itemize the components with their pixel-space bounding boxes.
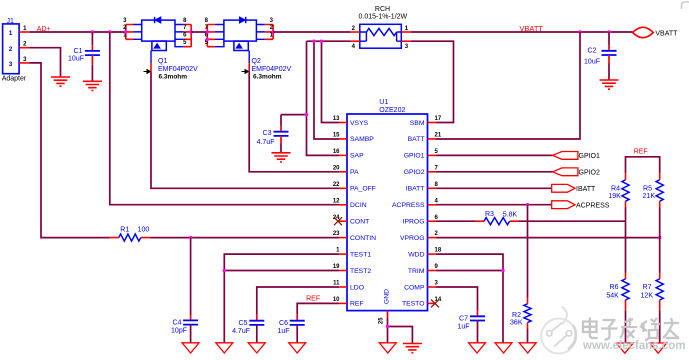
resistor R2: [524, 298, 531, 330]
svg-text:WDD: WDD: [408, 251, 424, 258]
svg-text:VBATT: VBATT: [519, 24, 543, 33]
svg-text:BATT: BATT: [408, 136, 425, 143]
wire SAMBP tap: [314, 41, 339, 139]
wire R2 lower: [527, 329, 529, 343]
svg-text:TRIM: TRIM: [408, 268, 425, 275]
svg-text:11: 11: [333, 281, 340, 287]
Q1 pin number 1: [123, 33, 127, 39]
svg-text:R2: R2: [512, 312, 521, 319]
Q2 value label 6.3mohm: [253, 74, 282, 81]
C3 value label 4.7uF: [257, 139, 275, 146]
node AD+ at C1 tap: [91, 30, 94, 33]
capacitor C2: [602, 51, 617, 55]
svg-text:25: 25: [379, 317, 385, 324]
resistor R4: [622, 173, 629, 207]
GPIO1 port name label: [579, 153, 601, 160]
svg-text:COMP: COMP: [404, 284, 425, 291]
svg-text:GPIO1: GPIO1: [579, 153, 601, 160]
svg-text:ACPRESS: ACPRESS: [576, 203, 610, 210]
C3 top pin stub: [280, 126, 282, 132]
RCH refdes label: [375, 6, 390, 13]
IBATT port name label: [576, 186, 596, 193]
capacitor C3: [274, 132, 289, 136]
svg-text:SAMBP: SAMBP: [350, 136, 374, 143]
capacitor C7: [470, 316, 485, 320]
RCH value label 0.015-1%-1/2W: [359, 14, 408, 21]
offpage port GPIO2: [553, 168, 578, 176]
R5 value label 21K: [643, 193, 656, 200]
C4 top pin stub: [190, 315, 192, 321]
wire J1 pin3 down and right to R1: [29, 63, 110, 238]
svg-text:TESTO: TESTO: [402, 301, 425, 308]
svg-text:21K: 21K: [643, 193, 656, 200]
net label VBATT: [519, 24, 543, 33]
RCH pin 4: [350, 41, 359, 50]
C6 refdes label: [279, 320, 288, 327]
ground earth below C3: [272, 153, 291, 162]
Q1 pin number 7: [183, 25, 187, 31]
Q2 pin number 5: [205, 40, 209, 46]
wire J1 pin2 to ground: [29, 48, 60, 77]
wire RCH pin4 sense line: [307, 40, 351, 42]
svg-text:CONT: CONT: [350, 219, 369, 226]
U1 part number label OZE202: [379, 107, 405, 114]
ground earth for U1 GND: [403, 344, 422, 353]
GPIO2 port name label: [579, 170, 601, 177]
R2 value label 36K: [510, 320, 523, 327]
svg-text:IPROG: IPROG: [403, 219, 425, 226]
svg-text:12: 12: [333, 198, 340, 204]
R1 value label 100: [138, 227, 150, 234]
svg-text:GPIO2: GPIO2: [579, 170, 601, 177]
svg-text:100: 100: [138, 227, 150, 234]
svg-text:EMF04P02V: EMF04P02V: [158, 66, 198, 73]
node Q2 left pins junction b: [206, 38, 209, 41]
C6 value label 1uF: [277, 328, 289, 335]
U1 pin 4 ACPRESS: [392, 198, 438, 209]
wire SBM to RCH pin3: [411, 41, 454, 122]
U1 pin 14 no-connect X: [431, 299, 439, 307]
Q2 mosfet element: [234, 41, 248, 50]
wire GPIO2: [436, 171, 553, 173]
svg-text:GPIO2: GPIO2: [404, 169, 425, 176]
svg-text:5.8K: 5.8K: [503, 211, 518, 218]
svg-text:C4: C4: [173, 320, 182, 327]
svg-text:C5: C5: [239, 320, 248, 327]
node GND junction: [386, 325, 389, 328]
U1 pin 1 TEST1: [336, 248, 371, 259]
Q1 pins 8,7,6,5 right stubs: [175, 25, 191, 47]
R5 refdes label: [643, 185, 652, 192]
resistor R5: [656, 173, 663, 207]
C4 refdes label: [173, 320, 182, 327]
svg-text:36K: 36K: [510, 320, 523, 327]
node AD+ at DCIN tap: [108, 30, 111, 33]
Q1 value label 6.3mohm: [159, 74, 188, 81]
svg-text:RCH: RCH: [375, 6, 390, 13]
U1 pin 21 BATT: [408, 133, 442, 144]
ground earth below C2: [600, 80, 619, 89]
wire LDO to C5: [257, 287, 339, 315]
svg-text:16: 16: [333, 149, 340, 155]
net label AD+: [37, 26, 51, 33]
svg-text:EMF04P02V: EMF04P02V: [252, 66, 292, 73]
R6 refdes label: [610, 284, 619, 291]
svg-text:4.7uF: 4.7uF: [232, 328, 250, 335]
svg-text:13: 13: [333, 116, 340, 122]
Q1 pin number 2: [123, 25, 127, 31]
svg-text:Q2: Q2: [252, 58, 261, 65]
U1 pin 25 number: [379, 317, 385, 324]
svg-text:SBM: SBM: [410, 120, 425, 127]
C3 refdes label: [263, 130, 272, 137]
svg-text:10uF: 10uF: [68, 56, 84, 63]
svg-text:4.7uF: 4.7uF: [257, 139, 275, 146]
wire R7 lower: [659, 310, 661, 343]
node Q1 left pins junction: [124, 30, 127, 33]
C7 refdes label: [459, 316, 468, 323]
svg-text:TEST1: TEST1: [350, 251, 371, 258]
wire REF pin to C6: [297, 303, 339, 314]
svg-text:C1: C1: [74, 48, 83, 55]
svg-text:J1: J1: [7, 18, 15, 25]
U1 pin 20 PA: [333, 165, 359, 176]
watermark chinese text zi: [601, 320, 618, 340]
svg-text:VBATT: VBATT: [655, 31, 678, 38]
C4 value label 10pF: [171, 328, 187, 335]
op-amp U1 body: [347, 114, 428, 311]
U1 pin 17 SBM: [410, 116, 442, 127]
wire PA_OFF to Q1 gate: [151, 73, 339, 189]
svg-text:R4: R4: [611, 185, 620, 192]
wire ACPRESS to R2: [527, 205, 529, 298]
watermark chinese text shao: [640, 318, 660, 340]
wire R4 node to R6: [625, 221, 627, 272]
C7 top pin stub: [477, 310, 479, 316]
C1 refdes label: [74, 48, 83, 55]
C2 top pin stub: [608, 45, 610, 51]
wire R6 lower: [625, 310, 627, 343]
R4 value label 19K: [608, 193, 621, 200]
wire TEST1 to ground: [224, 254, 339, 343]
U1 pin 18 WDD: [408, 248, 442, 259]
wire COMP to C7: [436, 287, 478, 310]
Q2 refdes label: [252, 58, 261, 65]
svg-text:15: 15: [333, 133, 340, 139]
R3 refdes label: [485, 211, 494, 218]
RCH pin 2: [350, 26, 359, 32]
U1 pin 7 GPIO2: [404, 165, 439, 176]
node Q2 right pins junction: [271, 30, 274, 33]
node C3 junction: [305, 113, 308, 116]
svg-text:www.elecfans.com: www.elecfans.com: [582, 340, 685, 352]
wire PA to Q2 gate: [249, 73, 339, 172]
svg-text:19K: 19K: [608, 193, 621, 200]
Q2 pins 8,7,6,5 left stubs: [207, 25, 224, 47]
wire R3 to R4 bottom: [518, 220, 625, 222]
svg-text:C2: C2: [588, 48, 597, 55]
R2 refdes label: [512, 312, 521, 319]
U1 pin 12 DCIN: [333, 198, 367, 209]
svg-text:TEST2: TEST2: [350, 268, 371, 275]
net label REF right: [634, 149, 648, 156]
R3 value label 5.8K: [503, 211, 518, 218]
Q1 pin number 5: [183, 40, 187, 46]
svg-text:SAP: SAP: [350, 153, 364, 160]
ground earth for J1 pin2: [51, 77, 70, 86]
svg-text:U1: U1: [379, 99, 388, 106]
wire C2 upper: [608, 32, 610, 45]
node VBATT at C2 tap: [607, 30, 610, 33]
wire Q1 to Q2: [191, 31, 207, 33]
node sense VSYS: [320, 40, 323, 43]
C1 value label 10uF: [68, 56, 84, 63]
ground triangle below R7: [650, 343, 667, 353]
svg-text:PA_OFF: PA_OFF: [350, 186, 376, 193]
U1 GND pin stub: [387, 311, 389, 318]
node sense SAMBP: [312, 40, 315, 43]
svg-text:54K: 54K: [606, 292, 619, 299]
Q2 body diode: [239, 17, 245, 23]
wire C6 lower: [296, 325, 298, 343]
wire CONTIN from R1: [150, 237, 339, 239]
svg-text:C3: C3: [263, 130, 272, 137]
svg-text:C7: C7: [459, 316, 468, 323]
svg-text:10: 10: [333, 297, 340, 303]
wire ACPRESS: [436, 204, 552, 206]
C5 refdes label: [239, 320, 248, 327]
Q2 pin number 8: [205, 18, 209, 24]
U1 pin 25 GND name: [384, 289, 391, 304]
Q1 pin number 3: [123, 18, 127, 24]
svg-text:10pF: 10pF: [171, 328, 187, 335]
Q1 refdes label: [158, 58, 167, 65]
J1 pin 2: [19, 42, 29, 48]
svg-text:1uF: 1uF: [457, 324, 469, 331]
svg-text:2: 2: [9, 46, 13, 53]
watermark chinese text you: [663, 318, 679, 338]
node CONTIN at C4 tap: [189, 236, 192, 239]
net label REF left: [306, 296, 320, 303]
Q1 gate lead: [150, 51, 152, 73]
Q1 mosfet element: [152, 41, 166, 50]
svg-text:C6: C6: [279, 320, 288, 327]
Q1 body diode: [155, 17, 161, 23]
svg-text:LDO: LDO: [350, 284, 364, 291]
ground triangle below R2: [519, 343, 536, 353]
Q1 gate pin arrow: [144, 70, 151, 74]
svg-text:R7: R7: [643, 284, 652, 291]
wire C7 lower: [477, 321, 479, 343]
wire Q2 to RCH pin2: [273, 31, 350, 33]
capacitor C5: [249, 321, 264, 325]
wire C3 lower: [280, 144, 282, 153]
C3 bottom pin stub: [280, 136, 282, 144]
svg-text:ACPRESS: ACPRESS: [392, 202, 425, 209]
svg-text:R1: R1: [120, 227, 129, 234]
ground triangle for TEST pins: [216, 343, 233, 353]
Q2 pin number 1: [270, 33, 274, 39]
svg-text:R5: R5: [643, 185, 652, 192]
wire RCH pin1 to VBATT port: [411, 31, 633, 33]
C2 value label 10uF: [584, 59, 600, 66]
U1 pin 15 SAMBP: [333, 133, 374, 144]
wire R5 node to R7: [659, 238, 661, 273]
transistor Q1 body: [142, 20, 175, 41]
capacitor C6: [290, 321, 305, 325]
resistor R3: [476, 218, 519, 225]
capacitor C4: [183, 320, 198, 324]
U1 pin 5 GPIO1: [404, 149, 439, 160]
svg-text:VPROG: VPROG: [400, 235, 425, 242]
svg-text:20: 20: [333, 165, 340, 171]
wire C4 upper: [190, 238, 192, 315]
watermark corner top right: [682, 2, 689, 9]
ground triangle below C4: [182, 343, 199, 353]
ground triangle below C6: [289, 343, 306, 353]
U1 pin 9 TRIM: [408, 264, 439, 275]
watermark chinese text dian: [583, 318, 598, 339]
R6 value label 54K: [606, 292, 619, 299]
svg-text:3: 3: [9, 61, 13, 68]
RCH pin 3: [401, 41, 411, 50]
J1 refdes label: [7, 18, 15, 25]
R4 refdes label: [611, 185, 620, 192]
Q1 pins 3,2,1 left stubs: [126, 25, 142, 40]
svg-text:OZE202: OZE202: [379, 107, 405, 114]
node VBATT at BATT tap: [578, 30, 581, 33]
ground triangle below C7: [469, 343, 486, 353]
Q2 pin number 6: [205, 33, 209, 39]
R1 refdes label: [120, 227, 129, 234]
offpage port GPIO1: [553, 152, 578, 160]
Q2 pin number 3: [270, 18, 274, 24]
ground triangle below C5: [248, 343, 265, 353]
wire R4 bottom to IPROG: [625, 208, 627, 222]
svg-text:Adapter: Adapter: [2, 76, 27, 83]
svg-text:REF: REF: [634, 149, 648, 156]
ground earth below C1: [83, 81, 102, 90]
offpage port IBATT: [552, 184, 575, 192]
svg-text:DCIN: DCIN: [350, 202, 367, 209]
U1 refdes label: [379, 99, 388, 106]
wire VPROG to R5 bottom: [436, 237, 660, 239]
Q2 pins 3,2,1 right stubs: [256, 25, 273, 40]
capacitor C1: [85, 51, 100, 55]
wire WDD down: [436, 254, 503, 343]
svg-text:REF: REF: [306, 296, 320, 303]
C6 top pin stub: [296, 315, 298, 321]
wire R5 bottom to VPROG: [659, 208, 661, 238]
svg-text:Q1: Q1: [158, 58, 167, 65]
C5 top pin stub: [256, 315, 258, 321]
svg-text:GPIO1: GPIO1: [404, 153, 425, 160]
U1 pin 10 REF: [333, 297, 364, 308]
resistor RCH body: [360, 24, 402, 48]
svg-text:6.3mohm: 6.3mohm: [159, 74, 188, 81]
svg-text:0.015-1%-1/2W: 0.015-1%-1/2W: [359, 14, 408, 21]
Q1 pin number 8: [183, 18, 187, 24]
Q2 gate pin arrow: [242, 70, 249, 74]
svg-text:12K: 12K: [641, 292, 654, 299]
Q1 pin number 6: [183, 33, 187, 39]
U1 pin 11 LDO: [333, 281, 364, 292]
Q2 part number label: [252, 66, 292, 73]
svg-text:CONTIN: CONTIN: [350, 235, 376, 242]
U1 pin 13 VSYS: [333, 116, 369, 127]
svg-text:GND: GND: [384, 289, 391, 304]
wire GPIO1: [436, 154, 553, 156]
C1 bottom pin stub: [91, 55, 93, 65]
U1 pin 16 SAP: [333, 149, 364, 160]
Q2 gate lead: [248, 51, 250, 73]
watermark logo circle: [541, 307, 576, 354]
ACPRESS port name label: [576, 203, 610, 210]
J1 pin 3: [19, 57, 29, 63]
node TEST junction: [223, 269, 226, 272]
U1 pin 19 TEST2: [333, 264, 372, 275]
U1 pin 22 PA_OFF: [333, 182, 376, 193]
ground triangle for WDD TRIM: [495, 343, 512, 353]
node WDD TRIM junction: [501, 269, 504, 272]
Q1 part number label: [158, 66, 198, 73]
node Q2 left pins junction a: [206, 30, 209, 33]
C7 value label 1uF: [457, 324, 469, 331]
Q2 pin number 2: [270, 25, 274, 31]
offpage port VBATT: [633, 27, 654, 37]
wire C3 upper: [280, 115, 282, 126]
offpage port ACPRESS: [552, 201, 575, 209]
wire C5 lower: [256, 325, 258, 343]
svg-text:REF: REF: [350, 301, 364, 308]
node Q1 right pins junction: [190, 30, 193, 33]
svg-text:IBATT: IBATT: [406, 186, 425, 193]
U1 pin 24 no-connect X: [334, 217, 342, 225]
svg-text:VSYS: VSYS: [350, 120, 369, 127]
RCH pin 1: [401, 26, 411, 32]
transistor Q2 body: [224, 20, 257, 41]
R7 value label 12K: [641, 292, 654, 299]
J1 pin 1: [19, 26, 29, 32]
wire IPROG to R3: [436, 220, 476, 222]
connector J1 body: [3, 24, 20, 74]
svg-text:17: 17: [435, 116, 442, 122]
wire AD+ rail from J1 pin1 to Q1: [29, 31, 126, 33]
wire C1 lower: [91, 65, 93, 82]
C5 value label 4.7uF: [232, 328, 250, 335]
svg-text:10uF: 10uF: [584, 59, 600, 66]
C1 top pin stub: [91, 45, 93, 51]
VBATT port name label: [655, 31, 678, 38]
ground triangle below R6: [616, 343, 633, 353]
svg-text:21: 21: [435, 133, 442, 139]
svg-text:IBATT: IBATT: [576, 186, 596, 193]
svg-text:23: 23: [333, 231, 340, 237]
svg-text:22: 22: [333, 182, 340, 188]
U1 pin 3 COMP: [404, 281, 438, 292]
U1 pin 6 IPROG: [403, 215, 439, 226]
svg-text:R6: R6: [610, 284, 619, 291]
svg-text:6.3mohm: 6.3mohm: [253, 74, 282, 81]
U1 pin 23 CONTIN: [333, 231, 376, 242]
wire C2 lower: [608, 64, 610, 81]
watermark chinese text fa: [620, 318, 637, 338]
wire DCIN to AD+ rail: [110, 32, 339, 205]
svg-text:PA: PA: [350, 169, 359, 176]
C2 bottom pin stub: [608, 55, 610, 64]
wire TRIM join: [436, 270, 503, 272]
Q2 pin number 7: [205, 25, 209, 31]
